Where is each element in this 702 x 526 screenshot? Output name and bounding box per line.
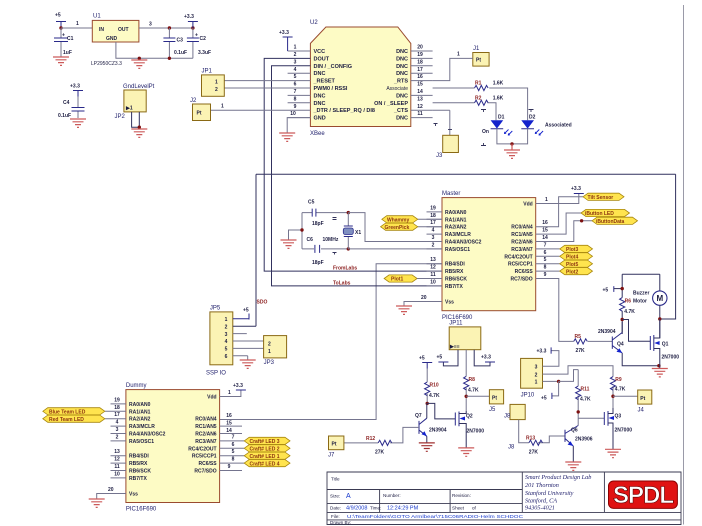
svg-text:4.7K: 4.7K [615, 387, 626, 393]
svg-text:DNC: DNC [396, 93, 408, 99]
svg-text:3: 3 [294, 59, 297, 65]
svg-text:2: 2 [116, 434, 119, 440]
svg-text:4.7K: 4.7K [468, 388, 479, 394]
svg-text:RC2/AN6: RC2/AN6 [195, 432, 217, 438]
svg-text:9: 9 [228, 464, 231, 470]
svg-text:Motor: Motor [633, 299, 647, 305]
svg-text:Pt: Pt [332, 442, 337, 448]
svg-text:Vss: Vss [129, 492, 138, 498]
svg-text:5: 5 [225, 347, 228, 353]
svg-text:J3: J3 [436, 153, 443, 159]
svg-text:Q3: Q3 [615, 414, 622, 420]
svg-text:DNC: DNC [314, 101, 326, 107]
svg-text:R11: R11 [581, 387, 590, 393]
svg-text:+5: +5 [437, 355, 443, 361]
svg-text:Craft# LED 1: Craft# LED 1 [250, 454, 280, 460]
svg-text:RB4/SDI: RB4/SDI [129, 454, 149, 460]
svg-text:On: On [482, 129, 489, 135]
svg-text:16: 16 [417, 74, 423, 80]
svg-text:J4: J4 [638, 408, 645, 414]
svg-text:27K: 27K [375, 450, 385, 456]
svg-text:+5: +5 [603, 288, 609, 294]
svg-text:Plot5: Plot5 [566, 262, 578, 268]
svg-text:19: 19 [114, 397, 120, 403]
svg-text:4/9/2008: 4/9/2008 [346, 506, 367, 512]
svg-text:RC5/CCP1: RC5/CCP1 [508, 262, 533, 268]
svg-text:2: 2 [215, 87, 218, 93]
svg-text:16: 16 [542, 220, 548, 226]
svg-text:1: 1 [294, 45, 297, 51]
svg-text:C6: C6 [307, 237, 314, 243]
svg-text:RA1/AN1: RA1/AN1 [129, 409, 151, 415]
svg-text:J8: J8 [504, 414, 511, 420]
svg-text:12: 12 [114, 457, 120, 463]
svg-text:1uF: 1uF [63, 50, 72, 56]
svg-text:8: 8 [232, 457, 235, 463]
svg-text:4: 4 [116, 420, 119, 426]
svg-text:IN: IN [99, 27, 104, 33]
svg-text:RA1/AN1: RA1/AN1 [445, 217, 467, 223]
svg-text:Revision:: Revision: [452, 493, 471, 498]
svg-text:Craft# LED 3: Craft# LED 3 [250, 439, 280, 445]
svg-text:Vss: Vss [445, 300, 454, 306]
svg-text:R8: R8 [469, 377, 476, 383]
svg-text:A: A [346, 493, 351, 500]
svg-text:+5: +5 [419, 356, 425, 362]
svg-text:2: 2 [225, 324, 228, 330]
svg-text:C3: C3 [177, 38, 184, 44]
svg-text:of: of [472, 506, 477, 511]
svg-text:File:: File: [331, 514, 340, 519]
svg-text:2: 2 [268, 342, 271, 348]
svg-text:RB4/SDI: RB4/SDI [445, 262, 465, 268]
svg-text:9: 9 [544, 272, 547, 278]
svg-text:18pF: 18pF [312, 221, 324, 227]
svg-text:DNC: DNC [314, 71, 326, 77]
svg-text:DNC: DNC [396, 71, 408, 77]
svg-text:+: + [195, 33, 198, 39]
svg-text:R6: R6 [625, 299, 632, 305]
svg-text:JP1: JP1 [202, 69, 213, 75]
svg-text:15: 15 [226, 420, 232, 426]
svg-text:17: 17 [114, 412, 120, 418]
svg-text:0.1uF: 0.1uF [58, 113, 71, 119]
svg-text:Craft# LED 4: Craft# LED 4 [250, 461, 280, 467]
svg-text:RB7/TX: RB7/TX [445, 284, 463, 290]
svg-text:5: 5 [294, 74, 297, 80]
svg-text:M: M [657, 294, 664, 303]
svg-text:U1: U1 [93, 14, 101, 20]
svg-text:RB6/SCK: RB6/SCK [129, 469, 151, 475]
svg-text:20: 20 [108, 487, 114, 493]
svg-text:27K: 27K [576, 348, 586, 354]
svg-text:2N7000: 2N7000 [615, 428, 633, 434]
svg-text:12: 12 [430, 265, 436, 271]
svg-text:18: 18 [430, 213, 436, 219]
svg-text:RB5/RX: RB5/RX [129, 461, 148, 467]
svg-text:Vdd: Vdd [523, 202, 532, 208]
svg-text:LP2950CZ3.3: LP2950CZ3.3 [91, 61, 122, 67]
svg-text:14: 14 [542, 235, 548, 241]
svg-text:Pt: Pt [197, 111, 202, 117]
svg-text:SSP IO: SSP IO [206, 371, 226, 377]
svg-text:+3.3: +3.3 [279, 30, 289, 36]
svg-text:Pt: Pt [640, 396, 645, 402]
svg-text:+3.3: +3.3 [233, 383, 243, 389]
svg-text:R5: R5 [575, 334, 582, 340]
svg-text:Sheet: Sheet [452, 506, 465, 511]
svg-text:6: 6 [232, 442, 235, 448]
svg-text:Time:: Time: [370, 506, 381, 511]
svg-text:+: + [62, 33, 65, 39]
svg-text:+5: +5 [55, 13, 61, 19]
svg-text:RC7/SDO: RC7/SDO [194, 469, 216, 475]
svg-text:DNC: DNC [396, 49, 408, 55]
svg-text:Vdd: Vdd [207, 395, 216, 401]
svg-text:1: 1 [221, 104, 224, 110]
svg-text:Buzzer: Buzzer [633, 291, 649, 297]
svg-text:_RESET: _RESET [313, 79, 336, 85]
svg-text:Number:: Number: [383, 493, 401, 498]
svg-text:20: 20 [421, 295, 427, 301]
svg-text:4: 4 [225, 339, 228, 345]
svg-text:2: 2 [535, 372, 538, 378]
svg-text:3.3uF: 3.3uF [198, 50, 211, 56]
svg-text:1: 1 [76, 21, 79, 27]
svg-text:DNC: DNC [396, 116, 408, 122]
svg-text:Red Team LED: Red Team LED [49, 417, 84, 423]
svg-text:RC3/AN7: RC3/AN7 [195, 439, 217, 445]
svg-text:13: 13 [114, 449, 120, 455]
svg-text:2: 2 [294, 52, 297, 58]
svg-text:7: 7 [544, 242, 547, 248]
svg-text:11: 11 [430, 272, 436, 278]
svg-text:_DTR / SLEEP_RQ / DI8: _DTR / SLEEP_RQ / DI8 [313, 108, 375, 114]
svg-text:J8: J8 [508, 445, 515, 451]
svg-text:RB6/SCK: RB6/SCK [445, 277, 467, 283]
svg-text:RA2/AN2: RA2/AN2 [445, 225, 467, 231]
svg-text:11: 11 [417, 111, 423, 117]
svg-text:1.6K: 1.6K [493, 81, 504, 87]
svg-text:DNC: DNC [396, 56, 408, 62]
svg-text:15: 15 [542, 228, 548, 234]
svg-text:Size:: Size: [330, 494, 340, 499]
svg-text:J5: J5 [489, 407, 496, 413]
svg-text:RC1/AN5: RC1/AN5 [195, 424, 217, 430]
svg-text:U2: U2 [310, 20, 318, 26]
svg-text:13: 13 [417, 96, 423, 102]
svg-text:X1: X1 [355, 230, 361, 236]
svg-text:RA0/AN0: RA0/AN0 [129, 402, 151, 408]
svg-text:4: 4 [432, 228, 435, 234]
svg-text:2N7000: 2N7000 [662, 355, 680, 361]
svg-text:XBee: XBee [310, 131, 325, 137]
svg-text:ON / _SLEEP: ON / _SLEEP [374, 101, 408, 107]
svg-text:DIN / _CONFIG: DIN / _CONFIG [314, 64, 353, 70]
svg-text:SDO: SDO [257, 300, 268, 306]
svg-text:3: 3 [432, 235, 435, 241]
svg-text:Plot3: Plot3 [566, 247, 578, 253]
svg-text:10: 10 [114, 471, 120, 477]
svg-text:R9: R9 [615, 377, 622, 383]
svg-text:J2: J2 [190, 98, 197, 104]
svg-text:1: 1 [228, 390, 231, 396]
svg-text:Plot4: Plot4 [566, 255, 578, 261]
svg-text:FromLabs: FromLabs [333, 266, 357, 272]
svg-text:7: 7 [232, 434, 235, 440]
svg-text:RC0/AN4: RC0/AN4 [195, 417, 217, 423]
svg-text:J7: J7 [328, 453, 335, 459]
svg-text:ToLabs: ToLabs [333, 281, 351, 287]
svg-text:_RTS: _RTS [393, 79, 408, 85]
svg-text:12: 12 [417, 104, 423, 110]
svg-text:D2: D2 [529, 115, 536, 121]
svg-text:Date:: Date: [330, 506, 341, 511]
svg-text:JP10: JP10 [521, 393, 535, 399]
svg-text:1: 1 [268, 349, 271, 355]
svg-text:RA2/AN2: RA2/AN2 [129, 417, 151, 423]
svg-text:RC0/AN4: RC0/AN4 [511, 225, 533, 231]
svg-text:Smart Product Design Lab: Smart Product Design Lab [525, 474, 591, 481]
svg-text:+5: +5 [541, 396, 547, 402]
svg-text:J1: J1 [473, 46, 480, 52]
svg-text:10: 10 [430, 279, 436, 285]
svg-text:RC4/C2OUT: RC4/C2OUT [504, 254, 532, 260]
svg-text:6: 6 [294, 82, 297, 88]
svg-text:1: 1 [457, 52, 460, 58]
svg-text:6: 6 [225, 354, 228, 360]
svg-text:18pF: 18pF [312, 260, 324, 266]
svg-text:17: 17 [430, 220, 436, 226]
svg-text:Pt: Pt [476, 58, 481, 64]
svg-text:201 Thornton: 201 Thornton [525, 482, 559, 489]
svg-text:0.1uF: 0.1uF [174, 50, 187, 56]
svg-text:1: 1 [225, 317, 228, 323]
svg-text:Q7: Q7 [415, 413, 422, 419]
svg-text:JP2: JP2 [115, 114, 126, 120]
svg-text:3: 3 [535, 364, 538, 370]
svg-text:2: 2 [432, 242, 435, 248]
svg-text:3: 3 [149, 22, 152, 28]
svg-text:+3.3: +3.3 [70, 84, 80, 90]
svg-text:RA4/AN3/OSC2: RA4/AN3/OSC2 [445, 240, 482, 246]
svg-text:1: 1 [545, 197, 548, 203]
svg-text:14: 14 [226, 428, 232, 434]
svg-text:JP3: JP3 [264, 360, 275, 366]
svg-text:GndLevelPt: GndLevelPt [123, 84, 155, 90]
svg-text:1: 1 [535, 380, 538, 386]
svg-text:DNC: DNC [314, 93, 326, 99]
svg-text:20: 20 [417, 45, 423, 51]
svg-text:R2: R2 [475, 96, 482, 102]
svg-text:Blue Team LED: Blue Team LED [49, 410, 86, 416]
svg-text:RC5/CCP1: RC5/CCP1 [192, 454, 217, 460]
svg-text:Title: Title [331, 477, 340, 482]
svg-text:RA5/OSC1: RA5/OSC1 [445, 247, 470, 253]
svg-text:RC6/SS: RC6/SS [515, 269, 534, 275]
svg-text:4.7K: 4.7K [580, 397, 591, 403]
svg-text:9: 9 [294, 104, 297, 110]
svg-text:Pt: Pt [492, 396, 497, 402]
svg-text:OUT: OUT [118, 27, 129, 33]
svg-text:▶≡≡: ▶≡≡ [449, 344, 460, 350]
svg-text:16: 16 [226, 413, 232, 419]
svg-text:+3.3: +3.3 [571, 186, 581, 192]
svg-text:GreenPick: GreenPick [385, 225, 410, 231]
svg-text:2N3904: 2N3904 [598, 329, 616, 335]
svg-text:5: 5 [232, 449, 235, 455]
svg-text:11: 11 [114, 464, 120, 470]
svg-text:17: 17 [417, 67, 423, 73]
svg-text:R10: R10 [430, 383, 439, 389]
svg-text:▶1: ▶1 [125, 106, 133, 112]
svg-text:RB7/TX: RB7/TX [129, 476, 147, 482]
svg-text:RC4/C2OUT: RC4/C2OUT [188, 446, 216, 452]
svg-text:7: 7 [294, 89, 297, 95]
svg-text:RA3/MCLR: RA3/MCLR [445, 232, 471, 238]
svg-text:Drawn By:: Drawn By: [330, 520, 351, 525]
svg-text:+3.3: +3.3 [537, 349, 547, 355]
svg-text:Q6: Q6 [571, 428, 578, 434]
svg-text:14: 14 [417, 89, 423, 95]
svg-text:RA3/MCLR: RA3/MCLR [129, 424, 155, 430]
svg-text:18: 18 [114, 405, 120, 411]
svg-text:RC2/AN6: RC2/AN6 [511, 240, 533, 246]
svg-text:PWM0 / RSSI: PWM0 / RSSI [314, 86, 348, 92]
svg-text:Dummy: Dummy [126, 383, 147, 389]
svg-text:Master: Master [442, 191, 460, 197]
svg-text:94305-4021: 94305-4021 [525, 505, 555, 512]
svg-text:SPDL: SPDL [613, 482, 673, 509]
svg-text:RC7/SDO: RC7/SDO [510, 277, 532, 283]
svg-text:VCC: VCC [314, 49, 326, 55]
svg-text:+3.3: +3.3 [481, 355, 491, 361]
svg-text:4.7K: 4.7K [624, 309, 635, 315]
svg-text:13: 13 [430, 257, 436, 263]
svg-text:3: 3 [116, 427, 119, 433]
svg-text:DNC: DNC [396, 64, 408, 70]
svg-text:PIC16F690: PIC16F690 [126, 507, 157, 513]
svg-text:RC1/AN5: RC1/AN5 [511, 232, 533, 238]
svg-text:Q1: Q1 [662, 342, 669, 348]
svg-text:Associated: Associated [545, 123, 572, 129]
svg-text:C1: C1 [67, 36, 74, 42]
svg-text:_CTS: _CTS [393, 108, 408, 114]
svg-text:Q4: Q4 [617, 342, 624, 348]
svg-text:Tilt Sensor: Tilt Sensor [588, 195, 614, 201]
svg-text:GND: GND [106, 36, 118, 42]
svg-text:U:\TeamFolders\GOTO Armlbear\7: U:\TeamFolders\GOTO Armlbear\715C06RADIO… [347, 514, 524, 519]
svg-text:RA4/AN3/OSC2: RA4/AN3/OSC2 [129, 432, 166, 438]
svg-text:R13: R13 [526, 436, 535, 442]
svg-text:3: 3 [225, 332, 228, 338]
svg-text:iButton LED: iButton LED [585, 211, 614, 217]
svg-text:19: 19 [417, 52, 423, 58]
svg-text:18: 18 [417, 59, 423, 65]
svg-text:C4: C4 [63, 100, 70, 106]
svg-text:RC3/AN7: RC3/AN7 [511, 247, 533, 253]
svg-text:iButtonData: iButtonData [596, 219, 625, 225]
svg-text:Craft# LED 2: Craft# LED 2 [250, 447, 280, 453]
svg-text:Plot2: Plot2 [566, 269, 578, 275]
svg-text:Stanford, CA: Stanford, CA [525, 497, 557, 504]
svg-text:4.7K: 4.7K [429, 393, 440, 399]
svg-text:6: 6 [544, 250, 547, 256]
svg-text:15: 15 [417, 82, 423, 88]
svg-text:JP5: JP5 [210, 306, 221, 312]
svg-text:12:24:29 PM: 12:24:29 PM [387, 506, 419, 512]
svg-text:+3.3: +3.3 [184, 14, 194, 20]
svg-text:GND: GND [314, 116, 326, 122]
svg-text:Plot1: Plot1 [391, 277, 403, 283]
svg-text:8: 8 [294, 96, 297, 102]
svg-text:10MHz: 10MHz [323, 237, 339, 243]
svg-text:R1: R1 [475, 81, 482, 87]
svg-text:19: 19 [430, 205, 436, 211]
svg-text:Q2: Q2 [466, 414, 473, 420]
svg-text:RC6/SS: RC6/SS [199, 461, 218, 467]
svg-text:JP11: JP11 [449, 321, 463, 327]
svg-text:+5: +5 [243, 308, 249, 314]
svg-text:RA5/OSC1: RA5/OSC1 [129, 439, 154, 445]
svg-text:2N3904: 2N3904 [429, 428, 447, 434]
svg-text:RA0/AN0: RA0/AN0 [445, 210, 467, 216]
svg-text:D1: D1 [498, 115, 505, 121]
svg-text:2N3906: 2N3906 [575, 437, 593, 443]
svg-text:8: 8 [544, 265, 547, 271]
svg-text:C2: C2 [200, 36, 207, 42]
svg-text:Stanford University: Stanford University [525, 490, 574, 497]
svg-text:27K: 27K [529, 450, 539, 456]
svg-text:10: 10 [290, 111, 296, 117]
svg-text:2N7000: 2N7000 [467, 429, 485, 435]
svg-text:Associate: Associate [386, 86, 408, 92]
svg-text:DOUT: DOUT [314, 56, 330, 62]
svg-text:RB5/RX: RB5/RX [445, 269, 464, 275]
svg-text:4: 4 [294, 67, 297, 73]
svg-text:C5: C5 [308, 200, 315, 206]
svg-text:1: 1 [215, 80, 218, 86]
svg-text:5: 5 [544, 257, 547, 263]
svg-text:1.6K: 1.6K [493, 96, 504, 102]
svg-text:R12: R12 [366, 436, 375, 442]
